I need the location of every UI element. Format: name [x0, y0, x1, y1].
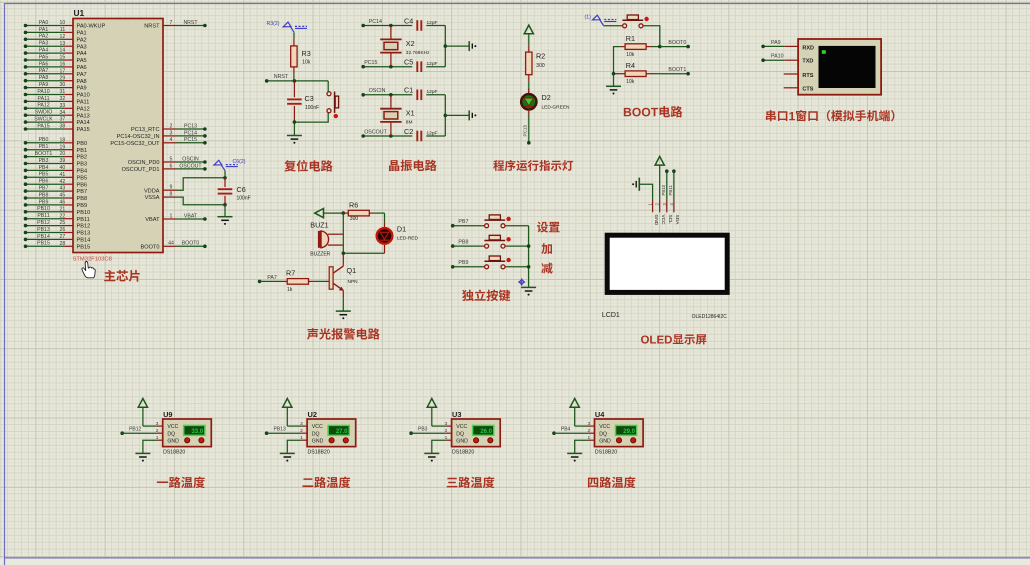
svg-text:32.768KHz: 32.768KHz [406, 50, 430, 56]
svg-text:44: 44 [168, 241, 174, 247]
U1 pin 43 (PB7) / net PB7 [26, 190, 64, 192]
svg-text:12pF: 12pF [427, 61, 438, 67]
label alarm circuit [307, 328, 318, 340]
svg-text:R6: R6 [349, 200, 358, 209]
U4 lcd readout [616, 425, 637, 435]
U1 pin 34 (PA13) / net SWDIO [26, 114, 64, 116]
svg-text:7: 7 [170, 20, 173, 26]
svg-text:NRST: NRST [183, 20, 198, 26]
svg-text:PA15: PA15 [37, 123, 49, 129]
svg-text:R3(2): R3(2) [267, 21, 280, 27]
svg-text:PA9: PA9 [771, 40, 781, 46]
label plus key [541, 243, 552, 254]
svg-text:PB5: PB5 [77, 175, 88, 181]
U1 pin 14 (PA4) / net PA4 [26, 52, 64, 54]
keys common bus [528, 226, 530, 287]
svg-text:3: 3 [445, 421, 448, 427]
svg-text:12: 12 [60, 34, 66, 40]
svg-text:VCC: VCC [167, 424, 178, 430]
crystal X2 [389, 24, 393, 28]
svg-text:C2: C2 [404, 127, 413, 136]
svg-text:C3: C3 [305, 94, 314, 103]
capacitor C4 [416, 20, 418, 31]
U3 buttons [474, 438, 479, 443]
svg-text:DQ: DQ [312, 431, 320, 437]
svg-text:PB3: PB3 [77, 162, 88, 168]
wire VDDA to C6 top [177, 178, 226, 190]
svg-text:PA3: PA3 [77, 44, 87, 50]
ground below U9 [135, 452, 150, 454]
bus right of X1 [444, 95, 446, 136]
svg-text:DQ: DQ [167, 431, 175, 437]
ground below Q1 [336, 310, 351, 312]
U1 pin 8 (VSSA) / net [163, 196, 177, 198]
label set key [537, 222, 548, 233]
svg-text:VCC: VCC [660, 215, 666, 226]
svg-text:PA13: PA13 [77, 113, 90, 119]
label minus key [541, 263, 552, 274]
U9 buttons [185, 438, 190, 443]
svg-text:PA9: PA9 [77, 86, 87, 92]
net PB4 wire to U4 DQ [552, 431, 556, 435]
svg-text:X2: X2 [406, 39, 415, 48]
svg-text:1k: 1k [287, 287, 293, 293]
svg-text:18: 18 [60, 137, 66, 143]
svg-text:PA0-WKUP: PA0-WKUP [77, 24, 106, 30]
svg-text:37: 37 [60, 117, 66, 123]
svg-text:PA10: PA10 [771, 54, 784, 60]
svg-text:PA4: PA4 [39, 48, 49, 54]
svg-text:GND: GND [599, 438, 611, 444]
svg-text:GND: GND [312, 438, 324, 444]
svg-text:PB11: PB11 [668, 185, 673, 196]
label main chip [104, 270, 115, 281]
svg-text:U2: U2 [308, 410, 317, 419]
svg-text:PA3: PA3 [39, 41, 49, 47]
U4 buttons [616, 438, 621, 443]
net PB3 wire to U3 DQ [409, 431, 413, 435]
svg-text:PB0: PB0 [77, 141, 88, 147]
svg-text:D2: D2 [542, 93, 551, 102]
svg-text:PB12: PB12 [37, 220, 50, 226]
svg-text:DS18B20: DS18B20 [163, 450, 185, 456]
svg-text:DQ: DQ [456, 431, 464, 437]
net PC15 wire [363, 66, 412, 68]
net NRST wire [267, 80, 329, 82]
svg-text:U4: U4 [595, 410, 605, 419]
svg-text:14: 14 [60, 48, 66, 54]
svg-text:PA7: PA7 [77, 72, 87, 78]
capacitor C1 [416, 90, 418, 101]
U1 pin 6 (OSCOUT_PD1) / net OSCOUT [163, 168, 177, 170]
svg-text:OSCIN: OSCIN [369, 88, 386, 94]
power arrow for R6 [315, 209, 324, 218]
U1 pin 44 (BOOT0) / net BOOT0 [163, 245, 177, 247]
MCU U1 body [73, 19, 163, 253]
svg-text:VCC: VCC [599, 424, 610, 430]
svg-text:PA7: PA7 [267, 275, 277, 281]
svg-text:OSCIN_PD0: OSCIN_PD0 [128, 160, 160, 166]
svg-text:PA9: PA9 [39, 82, 49, 88]
svg-text:PA10: PA10 [37, 89, 49, 95]
svg-text:6: 6 [170, 163, 173, 169]
svg-text:VDDA: VDDA [144, 188, 160, 194]
svg-text:TXD: TXD [802, 59, 813, 65]
svg-text:34: 34 [60, 110, 66, 116]
svg-text:PB13: PB13 [37, 227, 50, 233]
svg-text:10k: 10k [302, 60, 311, 66]
svg-text:33: 33 [60, 103, 66, 109]
svg-text:PB8: PB8 [39, 192, 49, 198]
svg-text:NRST: NRST [144, 24, 160, 30]
wire R1 left down to R4 [614, 47, 621, 74]
svg-text:SWDIO: SWDIO [35, 110, 53, 116]
svg-text:PB9: PB9 [39, 199, 49, 205]
label crystal circuit [389, 160, 399, 171]
U1 pin 7 (NRST) / net NRST [163, 25, 177, 27]
svg-text:3: 3 [156, 421, 159, 427]
U1 pin 33 (PA12) / net PA12 [26, 107, 64, 109]
probe R3(2) [283, 22, 291, 27]
sensor U9 body [163, 419, 212, 447]
svg-text:PB4: PB4 [77, 169, 88, 175]
svg-text:PA0: PA0 [39, 20, 49, 26]
svg-text:29: 29 [60, 75, 66, 81]
U1 pin 1 (VBAT) / net VBAT [163, 218, 177, 220]
svg-text:33.0: 33.0 [191, 429, 203, 435]
svg-text:19: 19 [60, 144, 66, 150]
svg-text:RXD: RXD [802, 45, 814, 51]
RTS pin stub [784, 73, 798, 75]
label program run indicator [493, 160, 504, 171]
svg-text:41: 41 [60, 172, 66, 178]
U1 pin 40 (PB4) / net PB4 [26, 169, 64, 171]
svg-text:PB14: PB14 [77, 238, 91, 244]
svg-text:C5: C5 [404, 58, 413, 67]
svg-text:3: 3 [170, 130, 173, 136]
svg-text:DS18B20: DS18B20 [595, 450, 617, 456]
svg-text:PB13: PB13 [77, 231, 91, 237]
svg-text:VBAT: VBAT [145, 217, 160, 223]
svg-text:42: 42 [60, 179, 66, 185]
node buzzer bottom junction [342, 252, 346, 256]
svg-text:R7: R7 [286, 269, 295, 278]
U1 pin 16 (PA6) / net PA6 [26, 66, 64, 68]
svg-text:DS18B20: DS18B20 [452, 450, 474, 456]
U4 GND wire [589, 439, 595, 441]
svg-text:BOOT0: BOOT0 [141, 244, 160, 250]
crystal X1 [389, 93, 393, 97]
U1 pin 20 (PB2) / net BOOT1 [26, 156, 64, 158]
net OSCOUT wire [363, 135, 412, 137]
svg-text:12pF: 12pF [427, 130, 438, 136]
svg-text:13: 13 [60, 41, 66, 47]
svg-text:SDA: SDA [674, 215, 680, 226]
led D2 LED-GREEN [528, 89, 530, 95]
svg-text:PA4: PA4 [77, 51, 87, 57]
serial terminal box [798, 39, 881, 95]
svg-text:PB1: PB1 [77, 148, 88, 154]
svg-text:43: 43 [60, 186, 66, 192]
svg-text:27.0: 27.0 [336, 429, 348, 435]
resistor R2 [528, 45, 530, 52]
svg-text:SWCLK: SWCLK [34, 117, 53, 123]
resistor R6 [343, 212, 348, 214]
button PB7 [483, 225, 485, 227]
ground below keys [521, 286, 536, 288]
svg-text:PB3: PB3 [418, 427, 428, 433]
power arrow for OLED VCC [655, 156, 664, 165]
svg-text:PA14: PA14 [77, 120, 90, 126]
button PB8 [483, 245, 485, 247]
sensor U4 power arrow [570, 399, 579, 408]
label BOOT circuit [624, 108, 631, 116]
svg-text:28: 28 [60, 241, 66, 247]
U2 buttons [329, 438, 334, 443]
svg-text:30: 30 [60, 82, 66, 88]
U9 GND wire [157, 439, 163, 441]
svg-text:PA2: PA2 [77, 37, 87, 43]
svg-text:PB12: PB12 [77, 224, 91, 230]
net PB12 wire to U9 DQ [120, 431, 124, 435]
U2 GND wire [301, 439, 307, 441]
transistor Q1 [342, 253, 344, 265]
U1 pin 18 (PB0) / net PB0 [26, 142, 64, 144]
wire D2 to PC13 node [528, 115, 530, 143]
svg-text:PA7: PA7 [39, 68, 49, 74]
svg-text:PB9: PB9 [77, 203, 88, 209]
svg-text:X1: X1 [406, 108, 415, 117]
U1 pin 27 (PB14) / net PB14 [26, 238, 64, 240]
U1 pin 15 (PA5) / net PA5 [26, 59, 64, 61]
svg-text:16: 16 [60, 62, 66, 68]
svg-text:PB7: PB7 [458, 219, 468, 225]
label OLED display [641, 335, 649, 343]
svg-text:OLED12864I2C: OLED12864I2C [692, 314, 728, 320]
svg-text:PB10: PB10 [77, 210, 91, 216]
buzzer BUZ1 [321, 231, 329, 248]
svg-text:(1): (1) [585, 14, 592, 20]
ground below C6 [224, 205, 226, 217]
U1 pin 31 (PA10) / net PA10 [26, 94, 64, 96]
svg-text:15: 15 [60, 55, 66, 61]
svg-text:BOOT1: BOOT1 [668, 67, 686, 73]
svg-text:BUZZER: BUZZER [310, 252, 330, 258]
node C6 top junction [223, 176, 227, 180]
net PC14 wire [363, 25, 412, 27]
label independent keys [462, 290, 474, 301]
net OSCIN wire [363, 94, 412, 96]
svg-text:26.0: 26.0 [480, 429, 492, 435]
svg-text:VCC: VCC [312, 424, 323, 430]
wire buzzer bus [342, 213, 344, 253]
svg-text:R1: R1 [626, 34, 635, 43]
probe (1) [593, 15, 601, 20]
button RESET [327, 92, 331, 96]
U1 pin 45 (PB8) / net PB8 [26, 197, 64, 199]
wire R6 to D1 [384, 213, 386, 222]
bus right of X2 [444, 26, 446, 67]
U1 pin 11 (PA1) / net PA1 [26, 31, 64, 33]
wire NRST to button [327, 81, 329, 92]
svg-text:300: 300 [350, 216, 359, 222]
svg-text:PB6: PB6 [39, 179, 49, 185]
svg-text:27: 27 [60, 234, 66, 240]
svg-text:PC15-OSC32_OUT: PC15-OSC32_OUT [110, 141, 160, 147]
svg-text:32: 32 [60, 96, 66, 102]
svg-text:C6: C6 [237, 185, 246, 194]
svg-text:PA8: PA8 [39, 75, 49, 81]
U1 pin 17 (PA7) / net PA7 [26, 73, 64, 75]
ground below U2 [280, 452, 295, 454]
svg-text:U3: U3 [452, 410, 461, 419]
ground below R4 [613, 74, 615, 86]
svg-text:PB7: PB7 [77, 189, 88, 195]
svg-text:PB10: PB10 [37, 206, 50, 212]
button PB9 [483, 266, 485, 268]
wire D1 bottom to junction [343, 252, 384, 254]
U1 pin 29 (PA8) / net PA8 [26, 80, 64, 82]
svg-text:U9: U9 [163, 410, 172, 419]
button BOOT [623, 24, 627, 28]
svg-text:22: 22 [60, 213, 66, 219]
sensor U4 body [595, 419, 644, 447]
wire OLED GND [639, 184, 652, 199]
svg-text:PA5: PA5 [77, 58, 87, 64]
svg-text:46: 46 [60, 200, 66, 206]
svg-text:PB11: PB11 [77, 217, 90, 223]
U3 GND wire [446, 439, 452, 441]
svg-text:12pF: 12pF [427, 20, 438, 26]
wire PB9 button to bus [505, 266, 507, 268]
svg-text:PB1: PB1 [39, 144, 49, 150]
svg-text:25: 25 [60, 220, 66, 226]
svg-text:PB14: PB14 [37, 234, 50, 240]
svg-text:OSCIN: OSCIN [182, 156, 199, 162]
svg-text:NRST: NRST [274, 74, 289, 80]
svg-text:PB8: PB8 [77, 196, 88, 202]
serial cursor [822, 50, 826, 54]
ground for OLED GND pin [638, 178, 640, 191]
svg-text:PB7: PB7 [39, 186, 49, 192]
svg-text:26: 26 [60, 227, 66, 233]
svg-text:BUZ1: BUZ1 [310, 221, 328, 230]
U1 pin 9 (VDDA) / net [163, 189, 177, 191]
label reset circuit [284, 160, 296, 171]
wire button to C3 bottom [294, 113, 328, 122]
svg-text:BOOT1: BOOT1 [35, 151, 53, 157]
U1 pin 10 (PA0-WKUP) / net PA0 [26, 25, 64, 27]
ground below U4 [567, 452, 582, 454]
wire PB7 button to bus [505, 225, 507, 227]
net PB7 wire [451, 224, 455, 228]
svg-text:10k: 10k [626, 79, 635, 85]
svg-text:DQ: DQ [599, 431, 607, 437]
wire OLED SCL [665, 169, 669, 173]
node C3 bottom junction [293, 120, 297, 124]
svg-text:PB0: PB0 [39, 137, 49, 143]
origin marker [519, 279, 524, 284]
svg-text:PA8: PA8 [77, 79, 87, 85]
svg-text:C1: C1 [404, 86, 413, 95]
sensor U3 power arrow [427, 399, 436, 408]
svg-text:U1: U1 [74, 8, 85, 18]
svg-text:39: 39 [60, 158, 66, 164]
net BOOT1 wire [660, 73, 688, 75]
svg-text:100nF: 100nF [237, 196, 251, 202]
probe C6(2) [214, 160, 222, 165]
wire VSSA to C6 bottom [177, 197, 226, 205]
svg-text:PC14-OSC32_IN: PC14-OSC32_IN [117, 134, 160, 140]
svg-text:PA10: PA10 [77, 93, 90, 99]
net PB8 wire [451, 244, 455, 248]
sensor U2 body [307, 419, 356, 447]
U1 pin 28 (PB15) / net PB15 [26, 245, 64, 247]
svg-text:PA5: PA5 [39, 54, 49, 60]
CTS pin stub [784, 87, 798, 89]
svg-text:PB4: PB4 [561, 427, 571, 433]
svg-text:LCD1: LCD1 [602, 312, 620, 319]
sensor U9 power arrow [138, 399, 147, 408]
label 三路温度 [447, 478, 458, 488]
U1 pin 26 (PB13) / net PB13 [26, 232, 64, 234]
svg-text:NPN: NPN [348, 279, 359, 285]
U1 pin 25 (PB12) / net PB12 [26, 225, 64, 227]
svg-text:29.0: 29.0 [623, 429, 635, 435]
capacitor C5 [416, 61, 418, 72]
U1 pin 32 (PA11) / net PA11 [26, 100, 64, 102]
U1 pin 39 (PB3) / net PB3 [26, 163, 64, 165]
U1 pin 22 (PB11) / net PB11 [26, 218, 64, 220]
svg-text:10k: 10k [626, 52, 635, 58]
ground below C3 [293, 122, 295, 135]
svg-text:C4: C4 [404, 16, 413, 25]
label serial window [766, 110, 776, 121]
net PA9 wire to RXD [784, 45, 798, 47]
resistor R4 [614, 73, 626, 75]
net PA10 wire to TXD [784, 59, 798, 61]
label 二路温度 [302, 478, 313, 487]
svg-text:1: 1 [170, 213, 173, 219]
hand cursor [82, 261, 95, 277]
svg-text:PB10: PB10 [661, 184, 666, 195]
svg-text:OSCOUT: OSCOUT [179, 163, 202, 169]
svg-text:PB11: PB11 [37, 213, 49, 219]
node R4 left junction [612, 72, 616, 76]
resistor R7 [258, 280, 262, 284]
net BOOT0 wire [660, 46, 688, 48]
svg-text:PB9: PB9 [458, 260, 468, 266]
label 四路温度 [588, 478, 598, 488]
svg-text:100nF: 100nF [305, 105, 319, 111]
svg-text:PC15: PC15 [184, 137, 197, 143]
svg-text:20: 20 [60, 151, 66, 157]
svg-text:LED-GREEN: LED-GREEN [542, 104, 571, 110]
svg-text:R3: R3 [302, 49, 311, 58]
U1 pin 3 (PC14-OSC32_IN) / net PC14 [163, 135, 177, 137]
svg-text:PA6: PA6 [77, 65, 87, 71]
U1 pin 19 (PB1) / net PB1 [26, 149, 64, 151]
wire boot button to R1 [643, 26, 660, 47]
label 一路温度 [157, 481, 168, 483]
svg-text:R4: R4 [626, 61, 635, 70]
serial screen [819, 46, 876, 88]
svg-text:STM32F103C8: STM32F103C8 [73, 257, 112, 263]
svg-text:VCC: VCC [456, 424, 467, 430]
svg-text:PB8: PB8 [458, 240, 468, 246]
svg-text:BOOT0: BOOT0 [668, 40, 686, 46]
svg-text:PB3: PB3 [39, 158, 49, 164]
